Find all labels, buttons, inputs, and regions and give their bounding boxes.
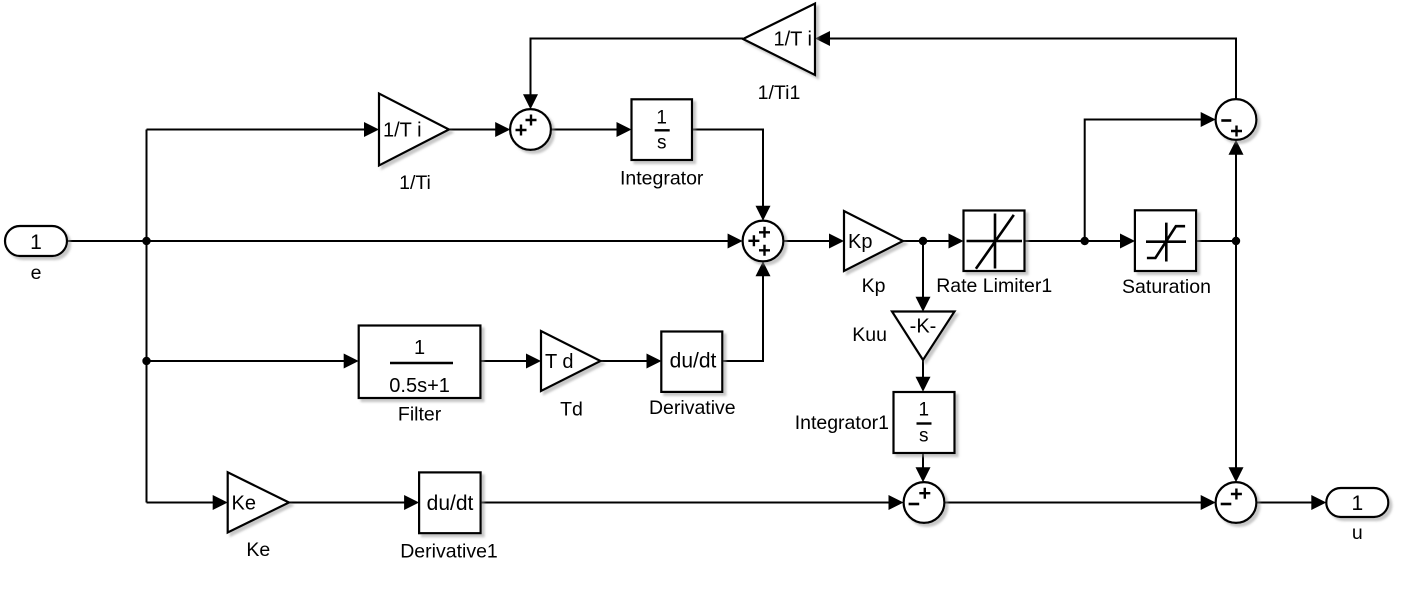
svg-text:Kp: Kp bbox=[862, 275, 886, 297]
sum S5 bbox=[1216, 482, 1257, 523]
wire junction Kp output down to gain Kuu bbox=[922, 241, 924, 299]
svg-text:Derivative1: Derivative1 bbox=[400, 541, 498, 563]
wire main trunk to sum S2 bbox=[147, 240, 730, 242]
svg-text:Saturation: Saturation bbox=[1122, 276, 1211, 298]
svg-text:Kuu: Kuu bbox=[852, 324, 887, 346]
wire feedback sum S3 top to gain 1/Ti1 bbox=[829, 39, 1236, 100]
wire Integrator to sum S2 top bbox=[692, 130, 763, 208]
junction trunk main row bbox=[142, 237, 150, 245]
wire row1 trunk to gain 1/Ti bbox=[147, 129, 367, 131]
svg-text:-K-: -K- bbox=[910, 316, 937, 338]
svg-text:Filter: Filter bbox=[398, 404, 442, 426]
svg-text:e: e bbox=[31, 262, 42, 284]
gain 1/Ti1 bbox=[743, 4, 815, 76]
svg-text:du/dt: du/dt bbox=[427, 492, 474, 515]
svg-text:1: 1 bbox=[30, 231, 42, 254]
wire gain 1/Ti1 to sum S1 top bbox=[531, 39, 744, 97]
derivative block bbox=[661, 332, 722, 392]
svg-text:u: u bbox=[1352, 522, 1363, 544]
gain 1/Ti bbox=[379, 94, 449, 166]
svg-text:s: s bbox=[919, 426, 929, 447]
wire Saturation to junction node bbox=[1196, 240, 1236, 242]
svg-text:1: 1 bbox=[414, 337, 425, 359]
wire Filter to gain Td bbox=[481, 360, 529, 362]
wire Derivative to sum S2 bottom bbox=[723, 275, 763, 362]
svg-text:T d: T d bbox=[545, 351, 574, 373]
wire trunk bottom elbow to gain Ke bbox=[147, 502, 215, 504]
svg-text:Ke: Ke bbox=[232, 493, 256, 515]
svg-text:1/T i: 1/T i bbox=[383, 120, 422, 142]
integrator1 block bbox=[894, 392, 955, 453]
wire filter row trunk to Filter bbox=[147, 360, 346, 362]
integrator U1 bbox=[632, 99, 693, 160]
outport 1 bbox=[1326, 488, 1388, 517]
svg-text:1: 1 bbox=[919, 400, 930, 421]
gain Ke bbox=[228, 472, 289, 532]
sum S3 bbox=[1216, 99, 1257, 140]
sum S4 bbox=[904, 482, 945, 523]
gain Kp bbox=[844, 211, 903, 271]
svg-text:1: 1 bbox=[1351, 492, 1363, 515]
wire sum S4 to sum S5 bbox=[945, 502, 1203, 504]
saturation block bbox=[1135, 210, 1196, 271]
svg-text:1/Ti1: 1/Ti1 bbox=[758, 82, 801, 104]
svg-text:Rate Limiter1: Rate Limiter1 bbox=[936, 275, 1052, 297]
junction trunk filter row bbox=[142, 357, 150, 365]
inport 1 bbox=[5, 226, 67, 256]
wire vertical trunk bbox=[146, 130, 148, 503]
sum S2 bbox=[743, 221, 784, 262]
svg-text:Integrator: Integrator bbox=[620, 167, 704, 189]
wire Integrator1 to sum S4 top bbox=[922, 453, 924, 469]
derivative1 block bbox=[419, 472, 481, 533]
svg-text:Derivative: Derivative bbox=[649, 397, 736, 419]
wire junction rate limiter output up to sum S3 left bbox=[1085, 120, 1203, 242]
wire junction up to sum S3 bottom bbox=[1235, 153, 1237, 241]
junction rate limiter output bbox=[1081, 237, 1089, 245]
wire junction down to sum S5 top bbox=[1235, 241, 1237, 469]
svg-text:1/T i: 1/T i bbox=[773, 29, 812, 51]
wire gain Ke to Derivative1 bbox=[289, 502, 406, 504]
sum S1 bbox=[510, 109, 551, 150]
wire sum S5 to outport bbox=[1257, 502, 1314, 504]
svg-text:du/dt: du/dt bbox=[670, 350, 717, 373]
wire gain 1/Ti to sum S1 bbox=[449, 129, 497, 131]
junction saturation output bbox=[1232, 237, 1240, 245]
wire sum S1 to Integrator bbox=[551, 129, 619, 131]
svg-text:0.5s+1: 0.5s+1 bbox=[389, 375, 450, 397]
svg-text:s: s bbox=[657, 133, 667, 154]
gain Td bbox=[541, 331, 601, 391]
svg-text:Td: Td bbox=[560, 399, 583, 421]
svg-text:Kp: Kp bbox=[848, 231, 872, 253]
wire inport to trunk junction bbox=[67, 240, 147, 242]
svg-text:1/Ti: 1/Ti bbox=[399, 172, 431, 194]
rate limiter block bbox=[964, 211, 1025, 272]
gain Kuu bbox=[892, 312, 955, 361]
filter block bbox=[359, 326, 481, 399]
wire gain Td to Derivative bbox=[601, 360, 649, 362]
wire gain Kuu to Integrator1 bbox=[922, 360, 924, 379]
junction Kp output bbox=[919, 237, 927, 245]
svg-text:1: 1 bbox=[656, 108, 667, 129]
wire Derivative1 to sum S4 bbox=[481, 502, 891, 504]
wire gain Kp to Rate Limiter1 bbox=[903, 240, 951, 242]
wire sum S2 to gain Kp bbox=[784, 240, 832, 242]
wire Rate Limiter1 to Saturation bbox=[1025, 240, 1123, 242]
svg-text:Ke: Ke bbox=[246, 539, 270, 561]
svg-text:Integrator1: Integrator1 bbox=[795, 412, 889, 434]
